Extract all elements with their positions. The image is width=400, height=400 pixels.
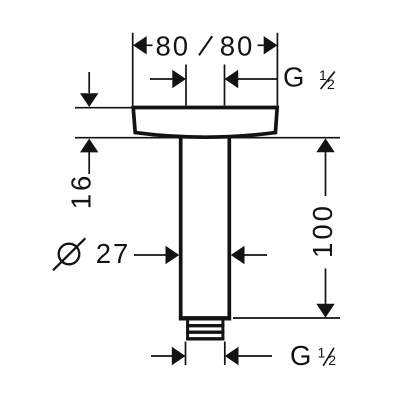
extension line bottom thread left xyxy=(185,342,187,366)
arrowhead 16 bottom (pointing up) xyxy=(80,139,98,153)
diameter 27 dimension line left tail xyxy=(134,254,167,256)
svg-text:80: 80 xyxy=(156,31,191,62)
diameter symbol slash xyxy=(53,238,85,270)
svg-text:16: 16 xyxy=(66,173,97,210)
dimension text slash between 80 and 80 xyxy=(199,36,212,55)
pipe bottom edge bar xyxy=(179,316,231,320)
extension line bottom thread right xyxy=(224,342,226,366)
16 dimension stub above xyxy=(88,72,90,93)
flange body outline xyxy=(133,108,277,138)
svg-text:1: 1 xyxy=(319,67,327,83)
thread ridge 2 xyxy=(186,331,224,334)
arrowhead 100 bottom (pointing down) xyxy=(316,304,334,318)
extension line right of 80/80 xyxy=(276,33,278,106)
extension line left of 80/80 xyxy=(132,33,134,106)
dimension line top G1/2 right segment xyxy=(237,78,278,80)
thread right wall xyxy=(221,321,224,340)
dimension line 80/80 left tail xyxy=(146,44,152,46)
extension line flange top left (16 top) xyxy=(75,107,133,109)
arrowhead top G1/2 right xyxy=(225,70,239,88)
thread left wall xyxy=(186,321,189,340)
dimension line bottom G1/2 right tail xyxy=(238,355,272,357)
16 dimension line below xyxy=(88,151,90,174)
svg-text:G: G xyxy=(290,340,313,371)
arrowhead diameter 27 right xyxy=(231,246,245,264)
extension line under flange (16 bottom / 100 top) xyxy=(75,137,340,139)
extension line pipe end right (100 bottom) xyxy=(233,317,340,319)
svg-text:27: 27 xyxy=(96,238,131,269)
thread ridge 1 xyxy=(186,324,224,327)
svg-text:G: G xyxy=(283,62,306,93)
arrowhead diameter 27 left xyxy=(166,246,180,264)
extension line inner right (top G1/2) xyxy=(224,65,226,106)
arrowhead top G1/2 left xyxy=(172,70,186,88)
diameter symbol circle xyxy=(59,244,80,265)
svg-text:100: 100 xyxy=(307,203,338,258)
svg-text:2: 2 xyxy=(327,76,335,92)
pipe right wall xyxy=(227,137,231,317)
arrowhead bottom G1/2 right xyxy=(225,347,239,365)
pipe left wall xyxy=(179,137,183,317)
svg-text:2: 2 xyxy=(328,352,336,368)
arrowhead 80/80 right xyxy=(264,36,278,54)
arrowhead 16 top (pointing down) xyxy=(80,93,98,107)
extension line inner left (top G1/2) xyxy=(185,65,187,106)
dimension line top G1/2 left segment xyxy=(150,78,174,80)
dimension text G 1/2 bottom: fraction one-half xyxy=(318,345,337,369)
dimension text G 1/2 top: fraction one-half xyxy=(319,67,335,92)
arrowhead 100 top (pointing up) xyxy=(316,138,334,152)
thread bottom edge xyxy=(186,337,224,340)
arrowhead 80/80 left xyxy=(133,36,147,54)
arrowhead bottom G1/2 left xyxy=(172,347,186,365)
diameter 27 dimension line right tail xyxy=(244,254,268,256)
100 dimension line upper segment xyxy=(325,151,327,196)
dimension line 80/80 right tail xyxy=(258,44,264,46)
dimension line bottom G1/2 left tail xyxy=(151,355,173,357)
svg-text:80: 80 xyxy=(220,31,255,62)
100 dimension line lower segment xyxy=(325,269,327,305)
svg-text:1: 1 xyxy=(318,345,326,361)
